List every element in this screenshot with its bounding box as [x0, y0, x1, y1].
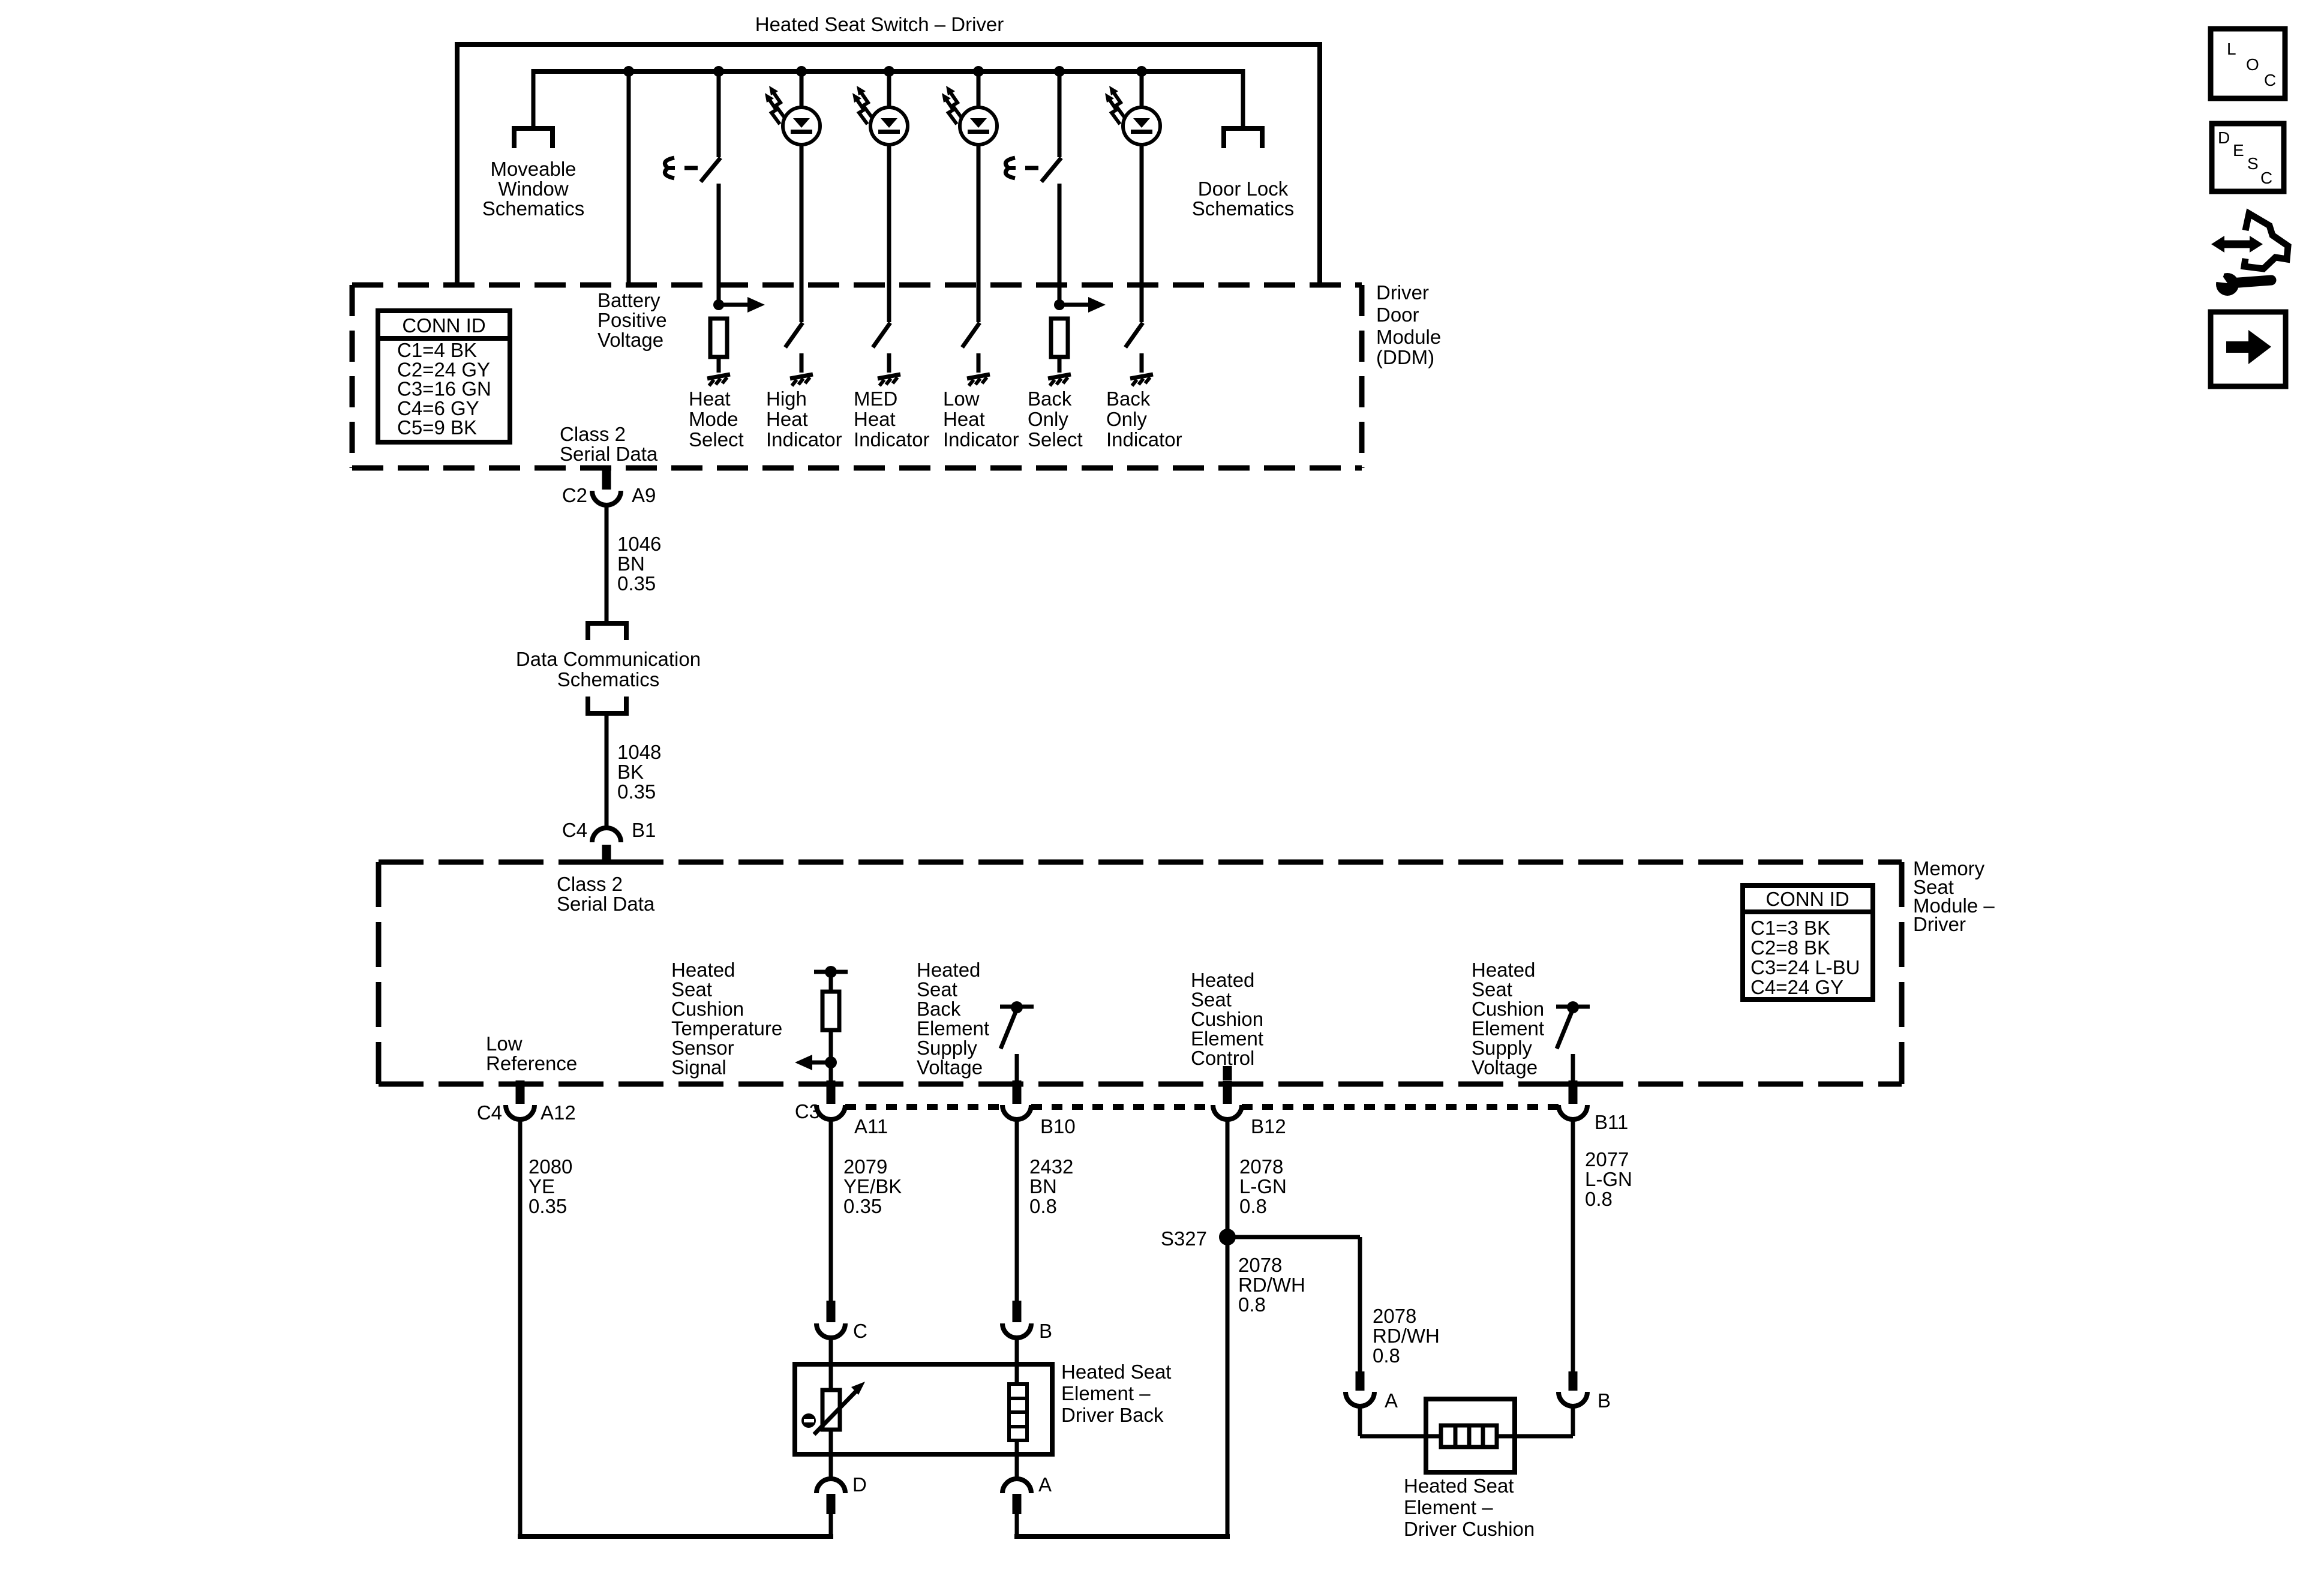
svg-text:Voltage: Voltage — [917, 1056, 983, 1079]
ground (MED Heat Indicator) — [878, 374, 900, 386]
ground (Low Heat Indicator) — [967, 374, 990, 386]
svg-text:0.35: 0.35 — [843, 1195, 882, 1217]
junction battery/bus — [623, 66, 634, 77]
LED Back Only Indicator — [1105, 86, 1160, 145]
svg-text:Heated: Heated — [1191, 969, 1254, 991]
wire to Moveable Window Schematics — [532, 69, 536, 128]
svg-text:Supply: Supply — [917, 1037, 977, 1059]
switch Heat Mode Select: wire to resistor — [717, 184, 721, 305]
svg-text:Reference: Reference — [486, 1052, 577, 1074]
junction Heat Mode Select — [713, 299, 724, 310]
svg-text:Cushion: Cushion — [671, 998, 744, 1020]
svg-text:CONN ID: CONN ID — [1765, 888, 1849, 910]
connector D (back element) — [829, 1430, 833, 1478]
svg-text:C5=9 BK: C5=9 BK — [397, 416, 477, 439]
svg-text:MED: MED — [854, 388, 897, 410]
svg-text:2078: 2078 — [1238, 1254, 1282, 1276]
svg-text:Voltage: Voltage — [1472, 1056, 1538, 1079]
svg-text:Heated Seat: Heated Seat — [1061, 1361, 1171, 1383]
Heated Seat Switch assembly box — [457, 44, 1320, 286]
svg-text:1048: 1048 — [617, 741, 661, 763]
svg-text:Driver: Driver — [1913, 913, 1966, 935]
svg-text:Driver Back: Driver Back — [1061, 1404, 1164, 1426]
wire 2080 YE — [518, 1119, 523, 1536]
svg-text:Cushion: Cushion — [1191, 1008, 1263, 1030]
svg-text:RD/WH: RD/WH — [1373, 1325, 1440, 1347]
svg-text:B12: B12 — [1251, 1115, 1286, 1137]
switch: heated seat back element supply voltage — [1000, 1005, 1034, 1009]
svg-text:Element: Element — [1472, 1017, 1544, 1040]
svg-text:Indicator: Indicator — [943, 428, 1019, 451]
svg-text:S327: S327 — [1161, 1227, 1207, 1250]
bottom wire: A to S327 branch — [1014, 1534, 1230, 1539]
connector C2/A9 — [602, 469, 611, 490]
LED High Heat Indicator — [765, 86, 820, 145]
connector C (back element) — [827, 1301, 836, 1322]
off-page bracket from Data Communication (lower) — [588, 697, 626, 713]
svg-text:0.8: 0.8 — [1239, 1195, 1267, 1217]
wire stub — [800, 353, 804, 373]
connector B10 — [1013, 1080, 1022, 1104]
switch blade High Heat Indicator — [785, 323, 803, 347]
svg-text:2078: 2078 — [1373, 1305, 1416, 1327]
svg-text:B1: B1 — [632, 819, 656, 841]
svg-text:2078: 2078 — [1239, 1155, 1283, 1178]
svg-text:Moveable: Moveable — [490, 158, 576, 180]
switch Back Only Select: blade — [1041, 158, 1061, 182]
signal arrow Back Only Select — [1059, 297, 1106, 313]
signal arrow Heat Mode Select — [719, 297, 765, 313]
svg-text:Low: Low — [943, 388, 980, 410]
svg-text:Heat: Heat — [766, 408, 808, 430]
Memory Seat Module dashed box — [379, 860, 1902, 865]
wire 2078 L-GN — [1226, 1119, 1230, 1536]
svg-text:CONN ID: CONN ID — [402, 314, 485, 337]
svg-text:Element: Element — [1191, 1028, 1263, 1050]
wire from cushion element to B — [1497, 1434, 1573, 1439]
svg-text:Back: Back — [1106, 388, 1151, 410]
icon: forward arrow box — [2211, 312, 2286, 386]
svg-text:Schematics: Schematics — [482, 197, 585, 220]
svg-text:Door Lock: Door Lock — [1198, 178, 1289, 200]
svg-text:Seat: Seat — [1191, 989, 1232, 1011]
svg-text:A11: A11 — [854, 1115, 888, 1137]
svg-text:D: D — [852, 1473, 867, 1496]
svg-text:Serial Data: Serial Data — [557, 893, 655, 915]
svg-text:L: L — [2227, 40, 2236, 58]
svg-text:2079: 2079 — [843, 1155, 887, 1178]
connector B (back element) — [1013, 1301, 1022, 1322]
battery positive voltage wire — [627, 71, 631, 287]
ground (Heat Mode Select) — [707, 374, 730, 386]
switch: heated seat cushion element supply voltage — [1556, 1005, 1590, 1009]
heater element (back) — [1009, 1384, 1027, 1440]
svg-text:Driver Cushion: Driver Cushion — [1404, 1518, 1535, 1540]
connector C4/A12 — [516, 1080, 525, 1104]
icon: wrench — [2206, 266, 2271, 296]
wire 2432 BN — [1015, 1119, 1019, 1301]
svg-text:D: D — [2218, 128, 2230, 147]
switch blade MED Heat Indicator — [873, 323, 890, 347]
svg-text:Element –: Element – — [1404, 1496, 1493, 1518]
off-page bracket to Data Communication (upper) — [588, 623, 626, 640]
svg-text:Door: Door — [1376, 304, 1419, 326]
svg-text:Indicator: Indicator — [1106, 428, 1182, 451]
svg-text:Voltage: Voltage — [597, 329, 663, 351]
wire below LED Low Heat Indicator — [977, 145, 981, 322]
svg-text:C2: C2 — [562, 484, 587, 506]
svg-text:Seat: Seat — [1472, 978, 1512, 1001]
wire stub — [977, 353, 981, 373]
svg-text:A12: A12 — [541, 1101, 576, 1124]
Driver Door Module (DDM) dashed box — [352, 283, 1362, 288]
wire S327 branch 2078 RD/WH — [1227, 1235, 1360, 1239]
wire — [717, 357, 721, 373]
LED High Heat Indicator: wire from bus — [796, 66, 807, 77]
svg-text:C: C — [2260, 169, 2272, 187]
junction temp sensor signal — [825, 1056, 837, 1068]
svg-text:Cushion: Cushion — [1472, 998, 1544, 1020]
thermistor (temp sensor) — [822, 1390, 840, 1430]
svg-text:RD/WH: RD/WH — [1238, 1274, 1305, 1296]
svg-text:0.35: 0.35 — [617, 572, 656, 595]
signal arrow (temp sensor) — [795, 1055, 831, 1070]
svg-text:C: C — [853, 1320, 867, 1342]
ground (High Heat Indicator) — [790, 374, 813, 386]
svg-text:Signal: Signal — [671, 1056, 726, 1079]
svg-text:Seat: Seat — [671, 978, 712, 1001]
ground (Back Only Select) — [1048, 374, 1071, 386]
svg-text:Heated: Heated — [671, 959, 735, 981]
wire 2079 YE/BK — [829, 1119, 833, 1301]
svg-text:Window: Window — [498, 178, 569, 200]
heater element (cushion) — [1441, 1425, 1497, 1447]
svg-text:Low: Low — [486, 1032, 523, 1055]
connector B12 — [1223, 1080, 1232, 1104]
svg-text:Positive: Positive — [597, 309, 667, 331]
junction Back Only Select — [1054, 299, 1065, 310]
svg-text:C: C — [2264, 71, 2276, 89]
svg-text:Schematics: Schematics — [557, 668, 660, 691]
LED MED Heat Indicator: wire from bus — [884, 66, 894, 77]
minus marker (NTC) — [801, 1413, 816, 1428]
svg-text:Seat: Seat — [917, 978, 957, 1001]
CONN ID table (DDM) — [378, 311, 510, 442]
Heated Seat Element - Driver Cushion box — [1426, 1399, 1515, 1472]
svg-text:Element: Element — [917, 1017, 989, 1040]
dotted connector line — [845, 1104, 1002, 1110]
svg-text:Module: Module — [1376, 326, 1441, 348]
supply bus wire — [533, 69, 1243, 74]
wire below LED Back Only Indicator — [1140, 145, 1144, 322]
switch Back Only Select: actuator symbol — [1005, 158, 1016, 178]
svg-text:C4=24 GY: C4=24 GY — [1750, 976, 1843, 998]
svg-text:0.8: 0.8 — [1238, 1293, 1266, 1316]
off-page bracket: Door Lock — [1224, 128, 1262, 148]
svg-text:B11: B11 — [1595, 1111, 1628, 1133]
svg-text:Data Communication: Data Communication — [516, 648, 701, 670]
wire 1048 BK — [605, 713, 609, 827]
svg-text:2432: 2432 — [1029, 1155, 1073, 1178]
svg-text:Back: Back — [1028, 388, 1072, 410]
svg-text:YE/BK: YE/BK — [843, 1175, 902, 1197]
icon: DESC box — [2212, 124, 2284, 191]
svg-text:Sensor: Sensor — [671, 1037, 734, 1059]
svg-text:C4: C4 — [477, 1101, 502, 1124]
svg-text:E: E — [2233, 141, 2244, 160]
connector C4/B1 — [592, 828, 621, 842]
svg-text:Heat: Heat — [854, 408, 896, 430]
wire to Door Lock Schematics — [1241, 69, 1245, 128]
svg-text:Select: Select — [689, 428, 744, 451]
switch Back Only Select: wire to resistor — [1058, 184, 1062, 305]
switch blade Low Heat Indicator — [962, 323, 980, 347]
ground (Back Only Indicator) — [1130, 374, 1153, 386]
heated seat cushion temperature sensor: pull-up — [814, 970, 848, 974]
wire — [1058, 357, 1062, 373]
LED Low Heat Indicator: wire from bus — [973, 66, 984, 77]
svg-text:BN: BN — [1029, 1175, 1057, 1197]
svg-text:O: O — [2246, 55, 2259, 74]
svg-text:0.8: 0.8 — [1585, 1188, 1613, 1210]
svg-text:B10: B10 — [1040, 1115, 1076, 1137]
icon: LOC box — [2211, 29, 2285, 98]
dash patch over B11 tick — [1555, 1082, 1591, 1087]
wire stub: heated seat cushion element control — [1223, 1066, 1232, 1080]
svg-text:Heated: Heated — [917, 959, 980, 981]
icon: harness outline — [2244, 214, 2288, 269]
splice S327 — [1219, 1229, 1236, 1245]
switch Heat Mode Select: wire from bus — [713, 66, 724, 77]
Heated Seat Element - Driver Back box — [795, 1364, 1052, 1454]
svg-text:C4: C4 — [562, 819, 587, 841]
svg-text:L-GN: L-GN — [1585, 1168, 1632, 1190]
svg-text:Mode: Mode — [689, 408, 738, 430]
svg-text:Heated: Heated — [1472, 959, 1535, 981]
svg-text:C3=24 L-BU: C3=24 L-BU — [1750, 956, 1860, 978]
svg-text:Select: Select — [1028, 428, 1083, 451]
bottom wire: A12 to D — [518, 1534, 833, 1539]
connector B11 — [1569, 1080, 1578, 1104]
svg-text:BN: BN — [617, 553, 645, 575]
svg-text:C1=3 BK: C1=3 BK — [1750, 917, 1830, 939]
svg-text:2080: 2080 — [529, 1155, 572, 1178]
svg-text:Indicator: Indicator — [854, 428, 930, 451]
svg-text:0.35: 0.35 — [617, 781, 656, 803]
svg-text:Element –: Element – — [1061, 1382, 1151, 1404]
svg-text:0.35: 0.35 — [529, 1195, 567, 1217]
svg-text:S: S — [2247, 154, 2259, 173]
svg-text:Temperature: Temperature — [671, 1017, 782, 1040]
wire stub — [887, 353, 891, 373]
svg-text:Heat: Heat — [689, 388, 731, 410]
svg-text:High: High — [766, 388, 807, 410]
svg-text:Schematics: Schematics — [1192, 197, 1295, 220]
wire below LED MED Heat Indicator — [887, 145, 891, 322]
svg-text:L-GN: L-GN — [1239, 1175, 1287, 1197]
svg-text:BK: BK — [617, 761, 644, 783]
svg-text:A9: A9 — [632, 484, 656, 506]
CONN ID table (MSM) — [1743, 885, 1873, 999]
svg-text:Serial Data: Serial Data — [560, 443, 658, 465]
wire to cushion element — [1360, 1434, 1442, 1439]
svg-text:A: A — [1385, 1389, 1398, 1412]
svg-text:Heated Seat: Heated Seat — [1404, 1475, 1514, 1497]
svg-text:0.8: 0.8 — [1373, 1344, 1400, 1367]
svg-text:2077: 2077 — [1585, 1148, 1629, 1170]
switch Heat Mode Select: actuator symbol — [665, 158, 675, 178]
svg-text:1046: 1046 — [617, 533, 661, 555]
svg-text:B: B — [1598, 1389, 1611, 1412]
switch Heat Mode Select: blade — [701, 158, 720, 182]
svg-text:Only: Only — [1106, 408, 1147, 430]
svg-text:C2=8 BK: C2=8 BK — [1750, 936, 1830, 959]
svg-text:Back: Back — [917, 998, 961, 1020]
resistor Back Only Select — [1051, 319, 1068, 357]
wire stub — [1140, 353, 1144, 373]
dash patch under C4/B1 tick — [591, 860, 625, 865]
svg-text:YE: YE — [529, 1175, 555, 1197]
switch blade Back Only Indicator — [1125, 323, 1143, 347]
connector A (cushion element) — [1356, 1371, 1365, 1391]
off-page bracket: Moveable Window — [514, 128, 553, 148]
wire below LED High Heat Indicator — [800, 145, 804, 322]
svg-text:Control: Control — [1191, 1047, 1254, 1069]
svg-text:B: B — [1039, 1320, 1052, 1342]
svg-text:Indicator: Indicator — [766, 428, 842, 451]
LED MED Heat Indicator — [852, 86, 908, 145]
svg-text:C3: C3 — [795, 1100, 820, 1122]
connector B (cushion element) — [1559, 1392, 1587, 1406]
svg-text:Battery: Battery — [597, 289, 660, 311]
LED Back Only Indicator: wire from bus — [1136, 66, 1147, 77]
svg-text:(DDM): (DDM) — [1376, 346, 1434, 368]
svg-text:Heated Seat Switch – Driver: Heated Seat Switch – Driver — [755, 13, 1004, 35]
svg-text:Class 2: Class 2 — [560, 423, 626, 445]
resistor Heat Mode Select — [710, 319, 727, 357]
switch Back Only Select: wire from bus — [1054, 66, 1065, 77]
svg-text:Class 2: Class 2 — [557, 873, 623, 895]
resistor (temp sensor pull-up) — [822, 992, 839, 1030]
icon: harness double arrow — [2211, 236, 2263, 253]
svg-text:Supply: Supply — [1472, 1037, 1532, 1059]
LED Low Heat Indicator — [942, 86, 997, 145]
connector A (back element) — [1015, 1440, 1019, 1478]
svg-text:Heat: Heat — [943, 408, 985, 430]
connector C3/A11 — [827, 1080, 836, 1104]
svg-text:Only: Only — [1028, 408, 1068, 430]
wire 1046 BN — [605, 506, 609, 623]
svg-text:Driver: Driver — [1376, 281, 1429, 304]
svg-text:0.8: 0.8 — [1029, 1195, 1057, 1217]
wire 2077 L-GN — [1571, 1119, 1575, 1375]
svg-text:A: A — [1038, 1473, 1052, 1496]
